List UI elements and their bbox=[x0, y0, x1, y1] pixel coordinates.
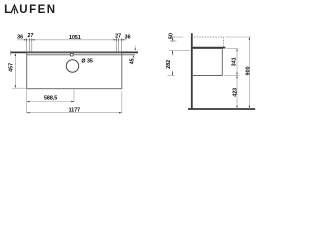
cabinet bottom line bbox=[192, 74, 223, 76]
ext line basin top to 900 bbox=[225, 36, 251, 38]
svg-text:457: 457 bbox=[8, 63, 14, 72]
svg-text:27: 27 bbox=[115, 33, 121, 39]
dim 423 bbox=[232, 75, 238, 109]
bottom extension lines bbox=[27, 90, 122, 114]
ext lines left of wall bbox=[169, 36, 183, 38]
logo A glyph with arrow bbox=[11, 5, 18, 13]
chain tick marks bbox=[27, 38, 122, 41]
svg-text:1051: 1051 bbox=[69, 35, 81, 41]
dashed basin outline top bbox=[194, 36, 224, 38]
top dimension chain line bbox=[18, 39, 128, 41]
dim 45 right mini bbox=[130, 46, 136, 65]
cabinet side box bbox=[193, 49, 222, 76]
svg-text:423: 423 bbox=[232, 88, 238, 97]
svg-text:Ø 35: Ø 35 bbox=[81, 59, 93, 65]
dim 900 bbox=[246, 37, 252, 109]
cabinet box front bbox=[27, 53, 122, 89]
svg-text:27: 27 bbox=[28, 33, 34, 39]
svg-text:36: 36 bbox=[17, 34, 23, 40]
svg-text:50: 50 bbox=[168, 33, 174, 39]
ext line countertop to 341 bbox=[227, 48, 239, 50]
svg-text:282: 282 bbox=[166, 60, 172, 69]
svg-text:900: 900 bbox=[246, 66, 252, 75]
wall / countertop top thick line bbox=[11, 51, 138, 53]
countertop side thick bbox=[192, 47, 226, 49]
dim 457 vertical line bbox=[14, 54, 16, 88]
dim 1177 line bbox=[27, 112, 122, 114]
dim 457 bottom terminator bbox=[12, 87, 27, 89]
svg-text:45: 45 bbox=[130, 58, 136, 64]
basin hole circle bbox=[66, 60, 78, 72]
floor line bbox=[188, 108, 255, 110]
dim 282 bbox=[166, 51, 173, 76]
dim 588,5 line bbox=[27, 101, 74, 103]
wall line side bbox=[191, 33, 193, 110]
ext line cabinet bottom to dims bbox=[224, 74, 240, 76]
svg-text:341: 341 bbox=[232, 57, 238, 66]
dim 457 arrows bbox=[15, 53, 16, 56]
svg-text:36: 36 bbox=[125, 35, 131, 41]
logo LAUFEN bbox=[4, 4, 57, 16]
svg-text:588,5: 588,5 bbox=[44, 96, 57, 102]
svg-text:1177: 1177 bbox=[69, 108, 81, 114]
tap hole square marker bbox=[71, 53, 74, 56]
dim 341 bbox=[232, 49, 238, 76]
top dimension chain extension lines bbox=[27, 41, 122, 52]
countertop bottom thin line bbox=[27, 54, 135, 56]
svg-text:L: L bbox=[4, 4, 13, 16]
tick at wall line start bbox=[9, 51, 11, 55]
dim 50 bbox=[168, 33, 174, 41]
dashed basin outline right bbox=[222, 37, 224, 47]
svg-text:UFEN: UFEN bbox=[19, 4, 56, 16]
chain arrows bbox=[24, 39, 124, 40]
